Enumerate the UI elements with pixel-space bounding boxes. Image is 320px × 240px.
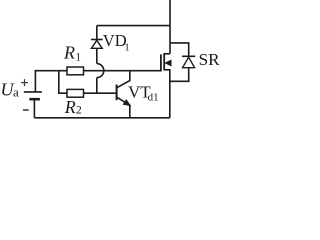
wire: top horizontal from VD1 branch to drain rail <box>97 25 170 27</box>
transistor VTd1 emitter diagonal with arrow, down wire <box>117 98 129 118</box>
svg-text:R: R <box>63 43 75 63</box>
wire: hop bottom down to base wire junction <box>96 78 98 94</box>
label + polarity (drawn) <box>21 79 28 86</box>
svg-text:VD: VD <box>103 31 127 50</box>
label - polarity (drawn) <box>23 109 29 111</box>
wire: MOSFET source vertical down to bottom rail <box>164 70 170 118</box>
svg-text:SR: SR <box>199 50 220 69</box>
mosfet gate bar <box>160 54 162 71</box>
wire: right rail top segment (drain, from top edge) <box>169 0 171 54</box>
wire: node A down to R2 level, stub to R2 <box>59 71 67 94</box>
wire: bottom rail <box>34 117 169 119</box>
mosfet channel bar <box>163 53 165 70</box>
svg-text:a: a <box>13 85 19 100</box>
svg-text:2: 2 <box>76 105 82 117</box>
diode SR triangle (hollow, apex up) <box>183 57 195 67</box>
svg-text:R: R <box>64 97 76 117</box>
transistor VTd1 base bar <box>116 85 118 101</box>
transistor VTd1 emitter arrowhead <box>124 100 130 105</box>
resistor R2 box <box>67 89 84 97</box>
wire hop over gate wire (semicircle bulging right) <box>97 64 104 78</box>
svg-text:1: 1 <box>75 51 81 63</box>
transistor VTd1 collector diagonal and up wire <box>117 71 129 88</box>
wire: SR anode down and left to source rail <box>170 68 189 82</box>
mosfet body arrow (points left to channel) <box>165 60 171 65</box>
svg-text:1: 1 <box>124 43 129 54</box>
battery Ua top plate (+) <box>24 91 42 93</box>
diode VD1 triangle (hollow, apex up) <box>91 40 102 48</box>
svg-text:d1: d1 <box>148 92 159 104</box>
wire: branch to SR body diode cathode <box>170 43 189 56</box>
battery Ua bottom plate (-) <box>29 98 40 101</box>
wire: VD1 vertical from top wire to cathode bar <box>96 26 98 40</box>
diode VD1 cathode bar <box>91 39 103 41</box>
wire: MOSFET drain stub <box>164 53 170 55</box>
wire: R2 right to transistor base <box>84 92 116 94</box>
wire: VD1 anode down to hop <box>96 48 98 63</box>
wire: battery + up and right to node A <box>35 71 67 92</box>
diode SR cathode bar <box>182 55 195 57</box>
wire: battery - down to bottom rail <box>33 100 35 118</box>
resistor R1 box <box>67 67 84 75</box>
wire: gate wire from R1 right side to gate <box>84 70 161 72</box>
